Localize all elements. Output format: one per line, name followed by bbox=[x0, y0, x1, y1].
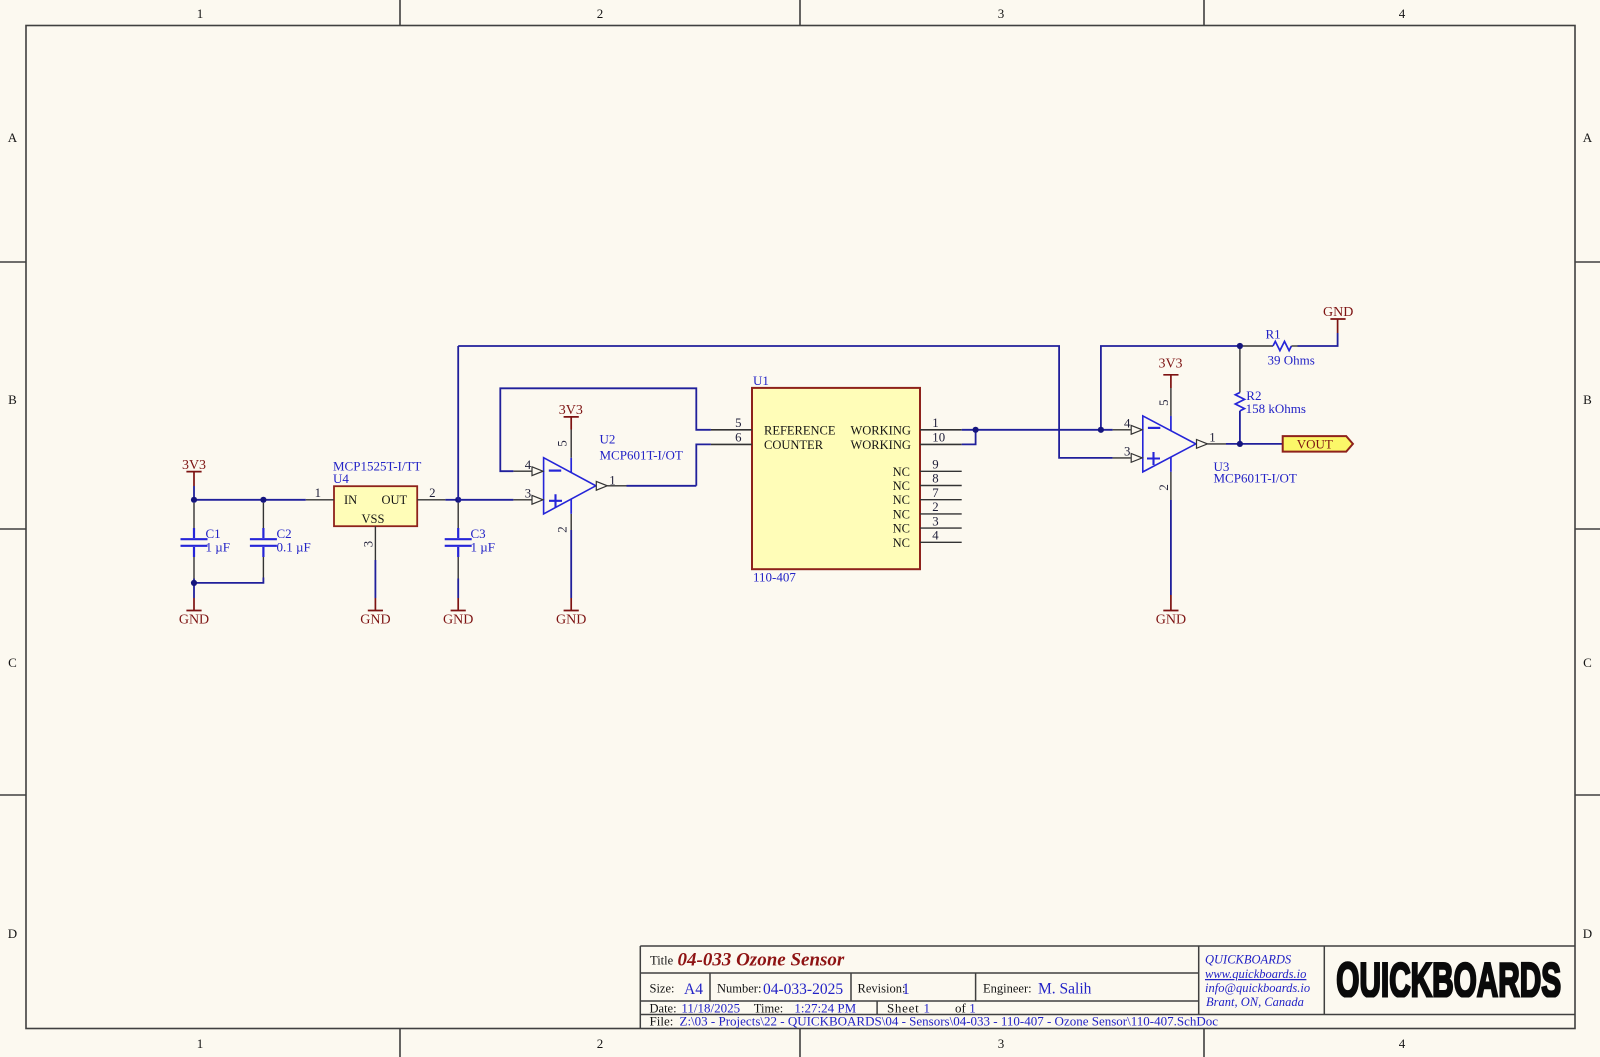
svg-text:C: C bbox=[1583, 655, 1592, 670]
svg-text:Revision:: Revision: bbox=[858, 982, 906, 996]
svg-text:NC: NC bbox=[893, 465, 910, 479]
svg-text:1: 1 bbox=[932, 416, 938, 430]
wire C2 bottom to C1 bottom bbox=[194, 578, 263, 583]
svg-text:Sheet: Sheet bbox=[887, 1001, 919, 1016]
svg-text:VOUT: VOUT bbox=[1297, 436, 1333, 451]
svg-text:3: 3 bbox=[998, 1036, 1005, 1051]
svg-text:6: 6 bbox=[735, 431, 742, 445]
svg-text:1: 1 bbox=[197, 1036, 204, 1051]
svg-text:Z:\03 - Projects\22 - QUICKBOA: Z:\03 - Projects\22 - QUICKBOARDS\04 - S… bbox=[680, 1015, 1219, 1029]
svg-text:2: 2 bbox=[597, 1036, 604, 1051]
svg-text:REFERENCE: REFERENCE bbox=[764, 424, 836, 438]
svg-text:3: 3 bbox=[362, 541, 376, 547]
wire node to U2 pin3 bbox=[458, 499, 513, 501]
svg-text:1: 1 bbox=[315, 486, 321, 500]
pin 2 negative supply bbox=[1170, 472, 1172, 500]
svg-text:NC: NC bbox=[893, 522, 910, 536]
svg-text:8: 8 bbox=[932, 472, 938, 486]
svg-text:B: B bbox=[1583, 392, 1592, 407]
ground GND (R1, bar up) bbox=[1323, 305, 1353, 333]
op-amp U2 bbox=[513, 430, 682, 533]
pin 3 NC bbox=[920, 527, 962, 529]
wire R1 to ground bbox=[1298, 333, 1338, 346]
wire top net to U3 noninverting bbox=[458, 346, 1112, 458]
svg-text:2: 2 bbox=[597, 6, 604, 21]
svg-text:1 µF: 1 µF bbox=[471, 540, 495, 555]
pin 2 bbox=[417, 499, 445, 501]
svg-text:11/18/2025: 11/18/2025 bbox=[681, 1001, 740, 1016]
wire U4.OUT up to top net bbox=[457, 346, 459, 500]
wire U4 pin3 down bbox=[374, 560, 376, 598]
svg-text:1:27:24 PM: 1:27:24 PM bbox=[794, 1001, 856, 1016]
pin 8 NC bbox=[920, 485, 962, 487]
wire U3 output to VOUT bbox=[1226, 443, 1283, 445]
wire U2 pin2 to ground bbox=[570, 530, 572, 598]
svg-text:1: 1 bbox=[924, 1001, 931, 1016]
svg-text:1 µF: 1 µF bbox=[206, 540, 230, 555]
power port 3V3 (U2) bbox=[559, 403, 583, 430]
ground GND (C1) bbox=[179, 598, 209, 627]
svg-text:GND: GND bbox=[360, 612, 390, 627]
svg-text:OUT: OUT bbox=[382, 493, 408, 507]
svg-text:1: 1 bbox=[902, 981, 910, 998]
svg-text:COUNTER: COUNTER bbox=[764, 438, 824, 452]
svg-text:NC: NC bbox=[893, 479, 910, 493]
svg-text:5: 5 bbox=[555, 440, 569, 446]
wire U1 pin10 up bbox=[962, 430, 976, 445]
svg-text:4: 4 bbox=[1399, 6, 1406, 21]
svg-text:GND: GND bbox=[1156, 612, 1186, 627]
svg-text:3: 3 bbox=[932, 514, 938, 528]
wire 3V3 rail bbox=[194, 499, 306, 501]
node junction R1/R2 bbox=[1237, 343, 1243, 349]
port VOUT bbox=[1283, 436, 1353, 452]
pin 1 output bbox=[1197, 440, 1208, 449]
svg-text:110-407: 110-407 bbox=[753, 570, 796, 585]
node junction C2 top bbox=[260, 497, 266, 503]
svg-text:GND: GND bbox=[443, 612, 473, 627]
svg-text:2: 2 bbox=[1157, 484, 1171, 490]
wire feedback from U3 input up and right bbox=[1101, 346, 1240, 430]
wire U2 output up to U1 pin6 bbox=[696, 444, 711, 485]
svg-text:1: 1 bbox=[969, 1001, 976, 1016]
pin 1 bbox=[306, 499, 334, 501]
node junction C1 bottom bbox=[193, 579, 195, 599]
pin 3 noninverting bbox=[513, 499, 531, 501]
pin 9 NC bbox=[920, 470, 962, 472]
wire R2 to output bbox=[1239, 411, 1241, 444]
wire C3 bottom bbox=[457, 579, 459, 599]
svg-text:2: 2 bbox=[555, 526, 569, 532]
svg-text:Size:: Size: bbox=[650, 982, 675, 996]
svg-text:U4: U4 bbox=[333, 471, 349, 486]
svg-text:1: 1 bbox=[1209, 430, 1215, 444]
svg-text:2: 2 bbox=[932, 500, 938, 514]
svg-text:5: 5 bbox=[735, 416, 741, 430]
svg-text:4: 4 bbox=[1124, 416, 1131, 430]
svg-text:A: A bbox=[1583, 130, 1593, 145]
svg-text:NC: NC bbox=[893, 493, 910, 507]
svg-text:NC: NC bbox=[893, 507, 910, 521]
svg-text:MCP601T-I/OT: MCP601T-I/OT bbox=[1214, 471, 1297, 486]
company contact box bbox=[1205, 953, 1310, 1010]
svg-text:Number:: Number: bbox=[717, 982, 761, 996]
svg-text:3: 3 bbox=[1124, 445, 1130, 459]
svg-text:B: B bbox=[8, 392, 17, 407]
pin 4 inverting bbox=[1113, 429, 1131, 431]
svg-text:7: 7 bbox=[932, 486, 939, 500]
node junction U3 inverting bbox=[1098, 427, 1104, 433]
svg-text:GND: GND bbox=[556, 612, 586, 627]
svg-text:2: 2 bbox=[429, 486, 435, 500]
pin 2 NC bbox=[920, 513, 962, 515]
node junction U4 out bbox=[455, 497, 461, 503]
svg-text:WORKING: WORKING bbox=[850, 424, 910, 438]
svg-text:3: 3 bbox=[525, 486, 531, 500]
resistor R1 bbox=[1243, 327, 1315, 368]
svg-text:10: 10 bbox=[932, 431, 945, 445]
svg-text:158 kOhms: 158 kOhms bbox=[1246, 401, 1306, 416]
svg-text:4: 4 bbox=[525, 458, 532, 472]
pin 6 COUNTER bbox=[711, 443, 752, 445]
ground GND (U3) bbox=[1156, 595, 1186, 627]
voltage reference U4 bbox=[306, 459, 446, 561]
svg-text:File:: File: bbox=[650, 1014, 674, 1029]
pin 4 NC bbox=[920, 541, 962, 543]
pin 5 REFERENCE bbox=[711, 429, 752, 431]
svg-text:WORKING: WORKING bbox=[850, 438, 910, 452]
svg-text:U2: U2 bbox=[600, 432, 616, 447]
svg-text:5: 5 bbox=[1157, 399, 1171, 405]
svg-text:04-033 Ozone Sensor: 04-033 Ozone Sensor bbox=[678, 950, 845, 971]
svg-text:Title: Title bbox=[650, 954, 674, 968]
svg-text:Brant, ON, Canada: Brant, ON, Canada bbox=[1206, 995, 1304, 1009]
svg-text:A: A bbox=[8, 130, 18, 145]
svg-text:M. Salih: M. Salih bbox=[1038, 981, 1092, 998]
svg-text:0.1 µF: 0.1 µF bbox=[277, 540, 311, 555]
svg-text:Engineer:: Engineer: bbox=[983, 982, 1032, 996]
svg-text:of: of bbox=[955, 1001, 967, 1016]
svg-text:GND: GND bbox=[179, 612, 209, 627]
svg-text:info@quickboards.io: info@quickboards.io bbox=[1205, 981, 1310, 995]
power port 3V3 (left) bbox=[182, 458, 206, 500]
pin 3 bbox=[374, 526, 376, 560]
wire U4 pin2 to node bbox=[445, 499, 458, 501]
pin 5 positive supply bbox=[1170, 388, 1172, 416]
wire U2 feedback top bbox=[500, 388, 711, 471]
svg-text:Time:: Time: bbox=[754, 1002, 783, 1016]
svg-text:A4: A4 bbox=[684, 981, 703, 998]
svg-text:1: 1 bbox=[609, 474, 615, 488]
title block lines bbox=[640, 946, 1575, 1029]
ground GND (C3) bbox=[443, 598, 473, 627]
svg-text:9: 9 bbox=[932, 458, 938, 472]
svg-text:U1: U1 bbox=[753, 373, 769, 388]
svg-text:3V3: 3V3 bbox=[559, 403, 583, 418]
svg-text:04-033-2025: 04-033-2025 bbox=[763, 981, 843, 998]
pin 3 noninverting bbox=[1113, 457, 1131, 459]
ground GND (U2) bbox=[556, 598, 586, 627]
pin 5 positive supply bbox=[570, 430, 572, 458]
pin 4 inverting bbox=[513, 470, 531, 472]
capacitor C2 bbox=[250, 503, 311, 578]
pin 10 WORKING bbox=[920, 443, 962, 445]
svg-text:MCP601T-I/OT: MCP601T-I/OT bbox=[600, 448, 683, 463]
svg-text:4: 4 bbox=[1399, 1036, 1406, 1051]
capacitor C3 bbox=[445, 503, 495, 579]
wire U1 working outputs to U3 bbox=[962, 429, 1113, 431]
wire U2 output bbox=[627, 485, 697, 487]
svg-text:3V3: 3V3 bbox=[1158, 356, 1182, 371]
svg-text:GND: GND bbox=[1323, 305, 1353, 320]
svg-text:VSS: VSS bbox=[362, 512, 385, 526]
op-amp U3 bbox=[1113, 388, 1297, 500]
svg-text:39 Ohms: 39 Ohms bbox=[1268, 353, 1315, 368]
svg-text:D: D bbox=[8, 926, 17, 941]
svg-text:1: 1 bbox=[197, 6, 204, 21]
svg-text:R1: R1 bbox=[1266, 327, 1281, 342]
svg-text:www.quickboards.io: www.quickboards.io bbox=[1205, 967, 1306, 981]
svg-text:C: C bbox=[8, 655, 17, 670]
svg-text:QUICKBOARDS: QUICKBOARDS bbox=[1205, 953, 1292, 967]
pin 7 NC bbox=[920, 499, 962, 501]
svg-text:4: 4 bbox=[932, 529, 939, 543]
svg-text:3: 3 bbox=[998, 6, 1005, 21]
pin 2 negative supply bbox=[570, 514, 572, 530]
pin 1 WORKING bbox=[920, 429, 962, 431]
wire U3 pin2 to ground bbox=[1170, 500, 1172, 595]
svg-text:D: D bbox=[1583, 926, 1592, 941]
sensor U1 bbox=[711, 373, 962, 585]
node junction C1 top bbox=[191, 497, 197, 503]
node junction output bbox=[1237, 441, 1243, 447]
svg-text:NC: NC bbox=[893, 536, 910, 550]
svg-text:IN: IN bbox=[344, 493, 357, 507]
resistor R2 bbox=[1235, 349, 1306, 416]
pin 1 output bbox=[596, 481, 607, 490]
power port 3V3 (U3) bbox=[1158, 356, 1182, 388]
ground GND (U4) bbox=[360, 598, 390, 627]
capacitor C1 bbox=[181, 503, 230, 579]
node junction working bbox=[973, 427, 979, 433]
